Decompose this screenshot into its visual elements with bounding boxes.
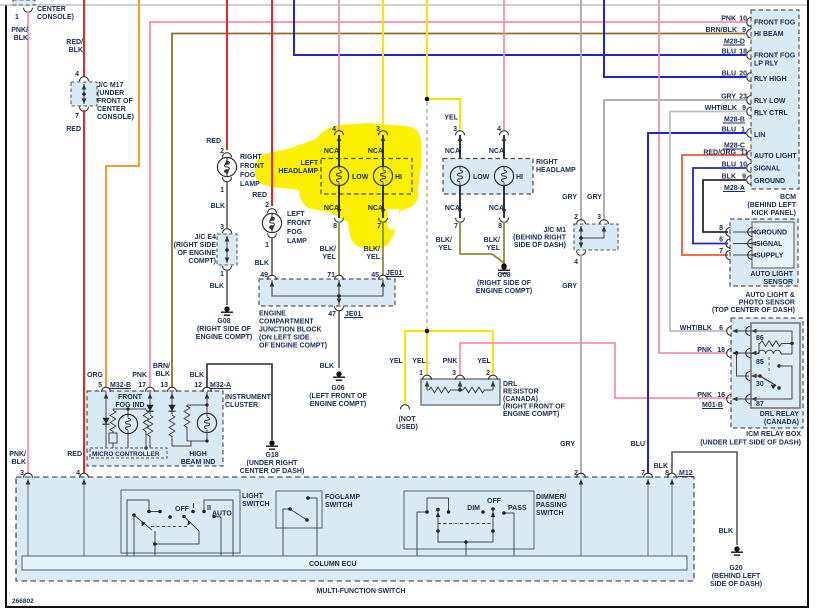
svg-text:6: 6 — [719, 325, 723, 332]
svg-text:II: II — [207, 505, 211, 512]
light switch contacts — [132, 510, 216, 546]
svg-text:17: 17 — [138, 382, 146, 389]
svg-text:GRY: GRY — [721, 94, 736, 101]
connector arc pin8 — [333, 209, 343, 230]
svg-text:M28-D: M28-D — [724, 39, 745, 46]
wire RED/ORG from BCM to sensor SUPPLY — [682, 155, 746, 255]
svg-text:BLK/: BLK/ — [320, 246, 336, 253]
svg-text:85: 85 — [756, 359, 764, 366]
svg-text:FRONT OF: FRONT OF — [97, 98, 133, 105]
wire NCA black HI down — [382, 186, 384, 218]
svg-text:DIMMER/: DIMMER/ — [536, 494, 566, 501]
DRL relay outer box (ICM relay box) — [727, 318, 803, 428]
svg-text:(UNDER RIGHT: (UNDER RIGHT — [247, 460, 299, 467]
svg-text:BLK: BLK — [69, 47, 83, 54]
label AUTO LIGHT SENSOR — [750, 271, 793, 286]
wire GRY J/C M1 to multifunction pin2 — [580, 255, 582, 474]
svg-text:WHT/BLK: WHT/BLK — [705, 105, 737, 112]
svg-text:M28-A: M28-A — [724, 185, 745, 192]
svg-text:OFF: OFF — [487, 498, 502, 505]
wire YEL x383 to left headlamp pin 3 — [382, 0, 384, 131]
wire PNK to DRL resistor pin3 and DRL relay — [460, 343, 747, 398]
wire BLK/YEL pin8 to junction 71 — [338, 222, 340, 275]
svg-text:GROUND: GROUND — [756, 230, 787, 237]
svg-text:RED: RED — [252, 192, 267, 199]
connector arc left headlamp pin3 — [368, 131, 388, 155]
wire YEL not used branch — [405, 331, 427, 404]
svg-text:GRY: GRY — [562, 283, 577, 290]
svg-text:COLUMN ECU: COLUMN ECU — [309, 561, 356, 568]
wire RED/BLK vertical x84 to J/C M17 — [83, 0, 85, 77]
wire NCA black pin3 to HI — [381, 135, 386, 166]
COLUMN ECU bar — [22, 556, 687, 570]
svg-text:PHOTO SENSOR: PHOTO SENSOR — [739, 300, 795, 307]
svg-text:3: 3 — [452, 370, 456, 377]
wire NCA black right HI down — [503, 186, 505, 218]
svg-text:J/C E4: J/C E4 — [195, 234, 217, 241]
wire NCA black pin4 to LOW — [337, 135, 342, 166]
sensor pin numbers — [719, 225, 723, 255]
lamp left headlamp LOW — [329, 166, 368, 185]
svg-text:OFF: OFF — [175, 506, 190, 513]
svg-text:G18: G18 — [265, 452, 278, 459]
svg-text:10: 10 — [739, 162, 747, 169]
svg-text:2: 2 — [486, 370, 490, 377]
svg-text:NCA: NCA — [368, 205, 383, 212]
label BCM (BEHIND LEFT KICK PANEL) — [747, 194, 796, 217]
svg-text:FRONT FOG: FRONT FOG — [754, 53, 796, 60]
svg-text:30: 30 — [756, 381, 764, 388]
svg-text:BLU: BLU — [722, 127, 736, 134]
svg-text:SIDE OF DASH): SIDE OF DASH) — [514, 242, 566, 249]
svg-text:18: 18 — [717, 347, 725, 354]
svg-text:ICM RELAY BOX: ICM RELAY BOX — [746, 431, 801, 438]
svg-text:GRY: GRY — [560, 441, 575, 448]
svg-text:CENTER OF DASH): CENTER OF DASH) — [240, 468, 305, 475]
svg-text:BLK: BLK — [320, 363, 334, 370]
dimmer switch contacts — [425, 507, 506, 544]
svg-text:ENGINE: ENGINE — [259, 311, 286, 318]
left headlamp box — [321, 159, 412, 195]
svg-text:45: 45 — [371, 272, 379, 279]
svg-text:ENGINE COMPT): ENGINE COMPT) — [310, 401, 366, 408]
ground G08 left — [221, 306, 233, 315]
foglamp switch internals — [283, 498, 317, 556]
label ENGINE COMPARTMENT JUNCTION BLOCK (ON LEFT SIDE OF ENGINE COMPT) — [259, 311, 327, 350]
svg-text:10: 10 — [739, 16, 747, 23]
wire GRY x581 to J/C M1 pin2 — [580, 0, 582, 220]
svg-text:BLU: BLU — [722, 71, 736, 78]
label PNK/BLK top — [11, 27, 28, 42]
highlighter annotation over left headlamp — [255, 123, 421, 250]
svg-text:2: 2 — [574, 470, 578, 477]
DRL resistor box — [421, 375, 500, 405]
svg-text:NCA: NCA — [489, 148, 504, 155]
svg-text:20: 20 — [739, 71, 747, 78]
dimmer switch internals — [417, 498, 514, 556]
svg-text:(UNDER LEFT SIDE OF DASH): (UNDER LEFT SIDE OF DASH) — [700, 440, 801, 447]
svg-text:HIGH: HIGH — [189, 451, 207, 458]
svg-text:YEL: YEL — [366, 254, 380, 261]
svg-text:PNK: PNK — [721, 16, 736, 23]
label PNK 16 — [697, 392, 725, 399]
svg-text:GRY: GRY — [562, 194, 577, 201]
relay switch 30/87 — [751, 364, 792, 408]
svg-text:ORG: ORG — [87, 372, 104, 379]
svg-text:FOG IND: FOG IND — [115, 402, 144, 409]
wire NCA black to right HI — [502, 135, 507, 166]
svg-text:8: 8 — [333, 223, 337, 230]
svg-text:PNK/: PNK/ — [11, 27, 28, 34]
svg-text:ENGINE COMPT): ENGINE COMPT) — [476, 288, 532, 295]
label BLK/YEL right pin7 — [436, 237, 453, 252]
svg-text:(RIGHT SIDE: (RIGHT SIDE — [174, 242, 217, 249]
svg-text:RLY LOW: RLY LOW — [754, 98, 786, 105]
svg-text:BRN/: BRN/ — [153, 363, 170, 370]
svg-text:5: 5 — [98, 382, 102, 389]
svg-text:6: 6 — [719, 237, 723, 244]
wire PNK x150 with horizontal to BCM FRONT FOG — [150, 22, 746, 388]
lamp left front fog — [262, 209, 281, 238]
page border left — [5, 5, 7, 607]
svg-text:71: 71 — [327, 272, 335, 279]
label INSTRUMENT CLUSTER — [225, 394, 272, 409]
cluster high beam circuit — [184, 392, 216, 443]
svg-text:8: 8 — [719, 225, 723, 232]
connector arc right pin8 — [498, 209, 508, 230]
svg-text:BLU: BLU — [722, 162, 736, 169]
svg-text:BLK/: BLK/ — [484, 237, 500, 244]
label G08 (RIGHT SIDE OF ENGINE COMPT) — [196, 318, 252, 341]
svg-text:YEL: YEL — [438, 245, 452, 252]
svg-text:J/C M1: J/C M1 — [543, 227, 566, 234]
svg-text:1: 1 — [220, 271, 224, 278]
svg-text:BLK: BLK — [654, 463, 668, 470]
svg-text:M28-B: M28-B — [724, 117, 745, 124]
svg-text:266802: 266802 — [12, 598, 34, 605]
svg-text:1: 1 — [265, 242, 269, 249]
label FRONT FOG IND — [115, 394, 144, 409]
BCM internal labels — [754, 20, 797, 186]
wire BLK/YEL pin7 to junction 45 — [382, 222, 384, 275]
svg-text:MULTI-FUNCTION SWITCH: MULTI-FUNCTION SWITCH — [317, 588, 406, 595]
svg-text:BLK: BLK — [12, 459, 26, 466]
svg-text:LIN: LIN — [754, 132, 765, 139]
label BRN/BLK — [153, 363, 170, 378]
svg-text:CENTER: CENTER — [97, 106, 126, 113]
wire PNK x504 to right headlamp pin 4 — [503, 0, 505, 131]
connector arc pin7 — [377, 209, 387, 230]
svg-text:23: 23 — [739, 94, 747, 101]
svg-text:HEADLAMP: HEADLAMP — [278, 168, 318, 175]
svg-text:NCA: NCA — [489, 205, 504, 212]
label DRL RELAY (CANADA) — [760, 411, 800, 426]
svg-text:16: 16 — [717, 392, 725, 399]
svg-text:HI: HI — [395, 174, 402, 181]
wire BLU SIGNAL from BCM to sensor — [693, 168, 746, 244]
lamp right headlamp HI — [494, 166, 523, 185]
cluster pin17 wire — [146, 392, 153, 448]
BCM box — [747, 10, 799, 189]
micro controller box — [90, 448, 167, 458]
svg-text:8: 8 — [665, 470, 669, 477]
label G08 (RIGHT SIDE OF ENGINE COMPT) right — [476, 272, 532, 295]
wire YEL to DRL resistor pin1 — [426, 331, 428, 375]
node yellow junction x427 lower — [425, 329, 430, 334]
svg-text:3: 3 — [597, 214, 601, 221]
wire GRY RLY LOW from BCM to J/C M1 pin3 — [604, 100, 746, 220]
light switch internals — [127, 500, 233, 556]
svg-text:M32-A: M32-A — [210, 382, 231, 389]
svg-text:9: 9 — [742, 27, 746, 34]
wire BLU LIN from BCM to multifunction pin7 — [648, 133, 746, 474]
svg-text:YEL: YEL — [444, 115, 458, 122]
node yellow junction x427 — [425, 97, 430, 102]
label G20 (BEHIND LEFT SIDE OF DASH) — [710, 565, 762, 588]
svg-text:(BEHIND RIGHT: (BEHIND RIGHT — [513, 235, 567, 242]
junction J/C M1 — [574, 220, 618, 256]
svg-text:(NOT: (NOT — [398, 416, 416, 423]
svg-text:HI BEAM: HI BEAM — [754, 31, 784, 38]
wire PNK/BLK vertical x28 — [27, 12, 29, 474]
svg-text:BLK: BLK — [722, 174, 736, 181]
svg-text:NCA: NCA — [324, 148, 339, 155]
svg-text:OF ENGINE: OF ENGINE — [177, 250, 216, 257]
multi-function switch box — [16, 473, 694, 581]
svg-text:AUTO LIGHT: AUTO LIGHT — [754, 153, 797, 160]
lamp right headlamp LOW — [450, 166, 489, 185]
connector arc left headlamp pin4 — [324, 131, 344, 155]
wire RED vertical x84 to switch — [83, 110, 85, 474]
wire NCA black LOW down — [338, 186, 340, 218]
svg-text:NCA: NCA — [445, 148, 460, 155]
svg-text:LOW: LOW — [352, 174, 369, 181]
svg-text:BLK/: BLK/ — [364, 246, 380, 253]
svg-text:7: 7 — [454, 223, 458, 230]
svg-text:(RIGHT SIDE OF: (RIGHT SIDE OF — [197, 326, 252, 333]
label JE01 bottom — [344, 311, 363, 318]
svg-text:JUNCTION BLOCK: JUNCTION BLOCK — [259, 327, 322, 334]
svg-text:PNK: PNK — [443, 358, 458, 365]
svg-text:3: 3 — [20, 470, 24, 477]
svg-text:1: 1 — [220, 187, 224, 194]
auto light sensor outer box — [726, 219, 798, 286]
svg-text:ENGINE COMPT): ENGINE COMPT) — [196, 334, 252, 341]
connector arc right headlamp pin3 — [445, 131, 465, 155]
svg-text:9: 9 — [742, 174, 746, 181]
svg-text:BEAM IND: BEAM IND — [181, 459, 216, 466]
svg-text:SWITCH: SWITCH — [242, 501, 270, 508]
label PNK/BLK bottom — [9, 451, 26, 466]
label AUTO LIGHT & PHOTO SENSOR (TOP CENTER OF DASH) — [712, 292, 795, 314]
wire BLK instrument cluster pin12 to G18 — [207, 364, 272, 440]
page border top (gray) — [0, 4, 807, 6]
ground G08 right — [498, 263, 510, 273]
wire RED x272 to left front fog lamp — [271, 0, 273, 206]
svg-text:SWITCH: SWITCH — [536, 510, 564, 517]
svg-text:HI: HI — [516, 174, 523, 181]
engine compartment junction block — [259, 275, 395, 311]
wire BLK GROUND from BCM to sensor — [703, 180, 746, 232]
svg-text:RED/ORG: RED/ORG — [703, 150, 736, 157]
wire BLK M12 pin8 to G20 — [672, 452, 737, 545]
svg-text:COMPT): COMPT) — [188, 258, 216, 265]
label WHT/BLK 6 — [680, 325, 723, 332]
label LEFT FRONT FOG LAMP — [287, 211, 312, 245]
svg-text:LAMP: LAMP — [240, 181, 260, 188]
svg-text:SIGNAL: SIGNAL — [756, 241, 783, 248]
cluster pin labels — [98, 382, 231, 389]
svg-text:LAMP: LAMP — [287, 238, 307, 245]
label RIGHT FRONT FOG LAMP — [240, 154, 265, 188]
svg-text:BLK: BLK — [211, 203, 225, 210]
svg-text:NCA: NCA — [324, 205, 339, 212]
lamp right front fog — [217, 153, 236, 182]
label BLK/YEL pin8 — [320, 246, 337, 261]
svg-text:(ON LEFT SIDE: (ON LEFT SIDE — [259, 335, 310, 342]
svg-text:8: 8 — [498, 223, 502, 230]
light switch blade arrows — [142, 521, 192, 527]
label J/C M17 (UNDER FRONT OF CENTER CONSOLE) — [97, 82, 134, 121]
foglamp switch contacts — [288, 496, 310, 522]
svg-text:(BEHIND LEFT: (BEHIND LEFT — [712, 573, 761, 580]
label RED/BLK — [66, 39, 83, 54]
svg-text:AUTO: AUTO — [212, 511, 232, 518]
svg-text:JE01: JE01 — [345, 311, 361, 318]
wire NCA black right LOW down — [459, 186, 461, 218]
junction J/C M17 — [71, 77, 97, 112]
svg-text:USED): USED) — [396, 424, 418, 431]
svg-text:SUPPLY: SUPPLY — [756, 253, 784, 260]
svg-text:SIGNAL: SIGNAL — [754, 166, 781, 173]
svg-text:LEFT: LEFT — [301, 160, 319, 167]
svg-text:WHT/BLK: WHT/BLK — [680, 325, 712, 332]
svg-text:NCA: NCA — [368, 148, 383, 155]
svg-text:(UNDER: (UNDER — [97, 90, 124, 97]
dimmer/passing switch box — [404, 491, 534, 549]
svg-text:PASS: PASS — [508, 505, 527, 512]
label BLK/YEL right pin8 — [484, 237, 501, 252]
svg-text:AUTO LIGHT: AUTO LIGHT — [750, 271, 793, 278]
svg-text:YEL: YEL — [412, 358, 426, 365]
svg-text:M12: M12 — [679, 470, 693, 477]
svg-text:HEADLAMP: HEADLAMP — [536, 167, 576, 174]
relay coil 86/85 — [751, 331, 794, 366]
svg-text:GROUND: GROUND — [754, 178, 785, 185]
svg-text:CONSOLE): CONSOLE) — [97, 114, 134, 121]
svg-text:AUTO LIGHT &: AUTO LIGHT & — [745, 292, 795, 299]
wire BLU RLY HIGH — [604, 0, 746, 77]
svg-text:J/C M17: J/C M17 — [97, 82, 124, 89]
svg-text:(CANADA): (CANADA) — [503, 396, 538, 403]
wire PNK x659 to DRL relay PNK 18 — [659, 0, 727, 353]
dimmer blade arrows — [436, 512, 495, 517]
wire WHT/BLK from BCM to DRL relay — [670, 112, 746, 332]
svg-text:RLY CTRL: RLY CTRL — [754, 110, 789, 117]
wire BLK fog to J/C E4 — [226, 182, 228, 228]
cluster pin13 wire — [168, 392, 191, 446]
svg-text:FOGLAMP: FOGLAMP — [325, 494, 360, 501]
svg-text:FRONT FOG: FRONT FOG — [754, 20, 796, 27]
svg-text:INSTRUMENT: INSTRUMENT — [225, 394, 272, 401]
svg-text:(BEHIND LEFT: (BEHIND LEFT — [747, 202, 796, 209]
right headlamp box — [443, 159, 533, 195]
svg-text:G08: G08 — [497, 272, 510, 279]
label LIGHT SWITCH — [242, 493, 270, 508]
svg-text:4: 4 — [574, 259, 578, 266]
svg-text:OF ENGINE COMPT): OF ENGINE COMPT) — [259, 343, 327, 350]
wire YEL branch to right headlamp pin 3 — [427, 99, 460, 131]
svg-text:BLU: BLU — [722, 49, 736, 56]
svg-text:G08: G08 — [217, 318, 230, 325]
svg-text:M28-C: M28-C — [724, 143, 745, 150]
dimmer position labels — [467, 498, 527, 512]
label DIMMER/PASSING SWITCH — [536, 494, 568, 517]
svg-text:CENTER: CENTER — [37, 6, 66, 13]
page border bottom — [5, 606, 809, 608]
ground G20 — [731, 546, 743, 555]
svg-text:BLU: BLU — [631, 441, 645, 448]
junction J/C E4 — [217, 229, 237, 271]
svg-text:BLK: BLK — [719, 528, 733, 535]
svg-text:M32-B: M32-B — [110, 382, 131, 389]
label G06 (LEFT FRONT OF ENGINE COMPT) — [309, 385, 367, 408]
label JE01 top — [385, 270, 404, 277]
svg-text:I: I — [193, 503, 195, 510]
svg-text:RED: RED — [206, 138, 221, 145]
label (NOT USED) — [396, 416, 418, 431]
svg-text:RED: RED — [67, 451, 82, 458]
label HIGH BEAM IND — [181, 451, 216, 466]
label G18 (UNDER RIGHT CENTER OF DASH) — [240, 452, 305, 475]
label PNK 18 — [697, 347, 725, 354]
svg-text:(LEFT FRONT OF: (LEFT FRONT OF — [309, 393, 367, 400]
svg-text:7: 7 — [641, 470, 645, 477]
svg-text:SIDE OF DASH): SIDE OF DASH) — [710, 581, 762, 588]
connector stub top-left (center console) — [13, 0, 35, 12]
wire BLK J/C E4 to G08 — [226, 270, 228, 305]
instrument cluster box — [87, 387, 223, 466]
label BLK/YEL pin7 — [364, 246, 381, 261]
DRL relay inner box — [735, 323, 800, 408]
svg-text:RIGHT: RIGHT — [536, 159, 559, 166]
svg-text:4: 4 — [76, 470, 80, 477]
svg-text:1: 1 — [15, 14, 19, 21]
svg-text:SENSOR: SENSOR — [763, 279, 793, 286]
svg-text:47: 47 — [328, 311, 336, 318]
svg-text:BCM: BCM — [780, 194, 796, 201]
page border right — [807, 0, 809, 607]
svg-text:RESISTOR: RESISTOR — [503, 389, 539, 396]
ground G18 — [266, 440, 278, 449]
svg-text:(CANADA): (CANADA) — [764, 419, 799, 426]
svg-text:YEL: YEL — [322, 254, 336, 261]
ground G06 — [333, 371, 345, 380]
sensor pin names — [756, 230, 787, 260]
svg-text:YEL: YEL — [486, 245, 500, 252]
svg-text:FRONT: FRONT — [118, 394, 143, 401]
svg-text:G06: G06 — [331, 385, 344, 392]
svg-text:1: 1 — [419, 370, 423, 377]
svg-text:YEL: YEL — [477, 358, 491, 365]
wire yellow x427 — [426, 0, 428, 99]
svg-text:RED/: RED/ — [66, 39, 83, 46]
svg-text:87: 87 — [756, 401, 764, 408]
svg-text:7: 7 — [377, 223, 381, 230]
svg-text:BLK/: BLK/ — [436, 237, 452, 244]
connector arc not used — [401, 405, 410, 410]
svg-text:G20: G20 — [729, 565, 742, 572]
